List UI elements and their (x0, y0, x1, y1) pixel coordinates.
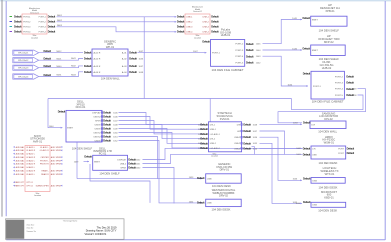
svg-text:ENET: ENET (67, 128, 73, 130)
HUB-02 right pin PORT-2 (335, 74, 354, 78)
svg-text:104 DEN SHELF: 104 DEN SHELF (319, 28, 340, 32)
svg-text:PORT-1: PORT-1 (39, 17, 47, 19)
svg-text:03 AUD R: 03 AUD R (26, 163, 35, 166)
svg-text:FRONT R: FRONT R (40, 164, 49, 166)
svg-text:104 DEN DESK: 104 DEN DESK (319, 161, 338, 165)
svg-text:WSM-01: WSM-01 (324, 140, 335, 144)
kvm KVM-01 box (209, 122, 242, 152)
svg-text:05 AUD L: 05 AUD L (26, 173, 35, 176)
wire HUB-01 PORT-3 to MFP-02 ENET (263, 47, 311, 51)
svg-text:04 AUD L: 04 AUD L (26, 166, 35, 169)
KVM-01 right pin USB-2 2 (234, 135, 258, 139)
HUB-01 right pin PORT-3 (235, 48, 261, 52)
AVR-01 right pin FRONT R (40, 163, 62, 166)
svg-text:Location: Location (31, 36, 38, 39)
svg-text:Default: Default (103, 131, 111, 135)
wire DOC-01 row1 to KVM-01 row1 (119, 113, 204, 125)
svg-text:KBD-01: KBD-01 (324, 196, 334, 200)
svg-text:Xxxx Xx:: Xxxx Xx: (27, 228, 34, 230)
AVR-01 left pin 04 AUD L (13, 166, 36, 169)
hub HUB-02 box (311, 71, 344, 99)
wire stub down left of DRV-02 run (90, 164, 150, 203)
printer MFP-02 box (311, 45, 346, 56)
svg-text:01 AUD R: 01 AUD R (40, 149, 49, 152)
hub HUB-01 box (211, 40, 245, 67)
svg-text:USB E: USB E (95, 128, 102, 130)
flag WP-01 input 2 (13, 57, 63, 63)
KVM-01 left pin USB-1 (198, 127, 217, 131)
svg-text:Default: Default (14, 30, 22, 34)
svg-text:PORT-2: PORT-2 (23, 22, 31, 24)
svg-text:AVR-01: AVR-01 (33, 139, 43, 143)
wire KVM-01 L/R drop (260, 131, 285, 154)
wire KVM-01 USB to KBD-01 (260, 143, 303, 204)
svg-text:USB: USB (312, 205, 317, 207)
svg-text:PORT-2: PORT-2 (39, 22, 47, 24)
svg-text:Default: Default (103, 139, 111, 143)
svg-text:AUD BAL: AUD BAL (16, 166, 25, 169)
receiver AVR-01 box (25, 146, 50, 192)
svg-text:USB-2: USB-2 (210, 143, 217, 145)
svg-text:N001: N001 (57, 15, 63, 17)
wire TEL-01 to TEL-02 row2 (57, 20, 177, 22)
svg-text:USB-2: USB-2 (234, 137, 241, 139)
WSM-01 left pin USB (296, 152, 317, 156)
svg-text:A-03 R: A-03 R (94, 65, 101, 68)
svg-text:Default: Default (103, 115, 111, 119)
svg-text:AUD SPKR: AUD SPKR (51, 159, 62, 162)
DOC-01 right pin USB S2 (93, 135, 118, 139)
svg-text:Default: Default (84, 51, 92, 55)
svg-text:Location: Location (194, 36, 201, 39)
svg-text:PORT: PORT (338, 148, 344, 150)
svg-text:104 DEN SHELF: 104 DEN SHELF (72, 147, 93, 151)
title block frame (6, 219, 125, 240)
svg-text:04 AUD R: 04 AUD R (26, 170, 35, 173)
svg-text:Default: Default (197, 200, 205, 204)
TEL-02 pin row 4 (177, 30, 219, 34)
AVR-01 left pin 05 AUD L (13, 173, 36, 176)
AVR-01 right pin SUBWOOFER (36, 184, 63, 187)
drive DRV-02 box (206, 199, 242, 206)
svg-text:USB S2: USB S2 (93, 136, 101, 138)
WP-01 pin row 4 (84, 70, 137, 74)
svg-text:Default: Default (177, 25, 185, 29)
svg-text:Default: Default (48, 30, 56, 34)
svg-text:The Design Name: The Design Name (63, 221, 77, 223)
svg-text:HUB-01: HUB-01 (221, 33, 231, 37)
svg-text:Default: Default (129, 51, 137, 55)
svg-text:DRV-02: DRV-02 (219, 194, 229, 198)
svg-text:Default: Default (243, 141, 251, 145)
svg-text:A-04 R: A-04 R (94, 71, 101, 74)
svg-text:Default: Default (14, 15, 22, 19)
PC-01 right pin SPKR (120, 166, 141, 170)
svg-text:WP-01 A-04: WP-01 A-04 (18, 75, 28, 78)
svg-text:DOC-01: DOC-01 (76, 105, 86, 109)
svg-text:ENET: ENET (312, 50, 318, 52)
svg-text:03 AUD L: 03 AUD L (26, 159, 35, 162)
svg-text:N003: N003 (57, 25, 63, 27)
svg-text:Default: Default (346, 81, 354, 85)
svg-text:Default: Default (303, 71, 311, 75)
svg-text:Default: Default (103, 135, 111, 139)
wire PC-01 USB to WSM-01 USB (143, 154, 303, 163)
svg-text:DRV-01: DRV-01 (220, 168, 230, 172)
svg-text:A-02: A-02 (122, 58, 127, 61)
AVR-01 right pin REAR R (41, 173, 62, 176)
svg-text:PORT-2: PORT-2 (235, 44, 244, 46)
svg-text:Default: Default (48, 25, 56, 29)
wire DRV-01 USB feed (77, 142, 202, 179)
speaker WSM-01 box (311, 146, 346, 159)
svg-text:USB: USB (312, 180, 317, 182)
svg-text:Default: Default (243, 135, 251, 139)
HUB-02 right pin PORT-4 (335, 87, 354, 91)
svg-text:104 DEN FILE CABINET: 104 DEN FILE CABINET (312, 100, 344, 104)
svg-text:USB-2: USB-2 (120, 163, 127, 165)
wire backbone DOC ENET run (48, 98, 292, 100)
wire flag 2 to WP-01 (39, 59, 83, 61)
wire backbone drop to DOC ENET (48, 99, 63, 129)
PC-01 right pin USB-2 (120, 162, 141, 166)
svg-text:Default: Default (211, 20, 219, 24)
svg-text:L/R: L/R (237, 131, 241, 133)
wire DOC-01 row6 to KVM-01 row6 (119, 133, 204, 149)
AVR-01 left pin 03 AUD R (13, 163, 36, 166)
flag WP-01 input 1 (13, 49, 63, 55)
svg-text:LINE-3: LINE-3 (186, 27, 193, 29)
svg-text:USB-2: USB-2 (234, 143, 241, 145)
svg-text:Default: Default (58, 110, 66, 114)
WP-01 pin row 3 (84, 64, 137, 68)
svg-text:Default: Default (303, 177, 311, 181)
TEL-02 pin row 3 (177, 25, 219, 29)
svg-text:USB-2: USB-2 (234, 148, 241, 150)
svg-text:LINE-3: LINE-3 (203, 27, 210, 29)
printer XPB-01 box (311, 16, 347, 26)
drive DRV-01 box (206, 174, 242, 183)
svg-text:Device-02: Device-02 (193, 11, 202, 13)
svg-text:Default: Default (303, 16, 311, 20)
wall plate WP-01 box (92, 49, 128, 76)
svg-text:LINE-1: LINE-1 (186, 17, 193, 19)
svg-text:SPKR: SPKR (120, 167, 126, 169)
AVR-01 left pin 01 AUD R (13, 149, 36, 152)
svg-text:L-R AUD-2: L-R AUD-2 (210, 147, 221, 150)
svg-text:Default: Default (211, 15, 219, 19)
svg-text:Default: Default (14, 25, 22, 29)
svg-text:L/R: L/R (312, 148, 316, 150)
svg-text:A-04: A-04 (122, 71, 127, 74)
svg-text:Default: Default (129, 64, 137, 68)
KVM-01 left pin USB-2 (198, 141, 217, 145)
TEL-01 pin row 2 (14, 20, 55, 24)
svg-text:PORT-4: PORT-4 (39, 32, 47, 34)
svg-text:104 DEN FILE CABINET: 104 DEN FILE CABINET (212, 68, 244, 72)
svg-text:PORT-5: PORT-5 (335, 95, 344, 97)
svg-text:Default: Default (246, 48, 254, 52)
AVR-01 right pin CENTER (40, 156, 62, 159)
TEL-02 pin row 2 (177, 20, 219, 24)
KVM-01 left pin L-R AUD-1 (198, 132, 221, 136)
WP-01 pin row 1 (84, 51, 137, 55)
WSM-01 right pin PORT a (338, 146, 354, 150)
svg-text:PORT-4: PORT-4 (23, 32, 31, 34)
svg-text:N002: N002 (57, 20, 63, 22)
svg-text:Default: Default (197, 176, 205, 180)
svg-text:XPB-01: XPB-01 (325, 9, 335, 13)
svg-text:Xxxx Xxx:: Xxxx Xxx: (27, 225, 35, 227)
svg-text:USB E: USB E (95, 124, 102, 126)
wire HUB-01 PORT-2 to XPB-01 ENET (263, 16, 311, 44)
wire DOC-01 USB to DRV-02 (119, 141, 203, 204)
svg-text:WTX-01: WTX-01 (325, 172, 335, 176)
svg-text:ENET: ENET (94, 161, 100, 163)
wire PC-01 DISPLAY to WSM-01 L/R (143, 148, 303, 159)
KVM-01 right pin L/R 1 (237, 129, 258, 133)
monitor DIS-02 box (310, 121, 346, 129)
svg-text:PORT-3: PORT-3 (39, 27, 47, 29)
svg-text:PORT-1: PORT-1 (313, 86, 322, 88)
svg-text:Default: Default (303, 200, 311, 204)
HUB-02 right pin PORT-5 (335, 93, 354, 97)
WSM-01 right pin PORT b (338, 151, 354, 155)
svg-text:AUD SPKR: AUD SPKR (51, 170, 62, 173)
svg-text:Location: Location (211, 155, 218, 158)
DOC-01 right pin DISPLAY (92, 111, 118, 115)
wire DOC-01 row4 to KVM-01 row4 (119, 125, 204, 139)
svg-text:PORT-4: PORT-4 (235, 56, 244, 58)
svg-text:VALLEY CONDOS: VALLEY CONDOS (85, 232, 107, 236)
WP-01 pin row 2 (84, 57, 137, 61)
wire flag 4 to WP-01 (39, 72, 83, 77)
DOC-01 right pin USB E (95, 127, 119, 131)
svg-text:Default: Default (84, 57, 92, 61)
svg-text:HUB-02: HUB-02 (322, 66, 332, 70)
svg-text:104 DEN WALL: 104 DEN WALL (318, 130, 337, 134)
svg-text:Default: Default (211, 30, 219, 34)
svg-text:DVI: DVI (237, 124, 241, 126)
svg-text:LINE-4: LINE-4 (203, 32, 210, 34)
wire HUB-01 PORT-4 to HUB-02 PORT-1 (263, 56, 309, 87)
svg-text:DVI-2: DVI-2 (210, 139, 216, 141)
svg-text:AUD BAL: AUD BAL (16, 173, 25, 176)
svg-text:AUD SPKR: AUD SPKR (51, 146, 62, 149)
wire drop to KVM DVI-1 (209, 99, 211, 122)
svg-text:AUD SPKR: AUD SPKR (51, 163, 62, 166)
svg-text:104 DEN DESK: 104 DEN DESK (212, 184, 231, 188)
svg-text:Default: Default (177, 15, 185, 19)
svg-text:AUD BAL: AUD BAL (16, 153, 25, 156)
svg-text:PORT-3: PORT-3 (235, 50, 244, 52)
wire KVM-01 USB to WTX-01 (260, 137, 303, 181)
svg-text:PORT-2: PORT-2 (335, 76, 344, 78)
sheet right border line (384, 1, 386, 240)
svg-text:DVI: DVI (311, 124, 315, 126)
svg-text:Default: Default (246, 42, 254, 46)
svg-text:Default: Default (243, 129, 251, 133)
svg-text:Default: Default (303, 121, 311, 125)
svg-text:LINE-2: LINE-2 (203, 22, 210, 24)
AVR-01 left pin OPT 01 (13, 181, 33, 184)
AVR-01 right pin 01 AUD R (40, 149, 63, 152)
svg-text:USB: USB (312, 154, 317, 156)
wire flag 3 to WP-01 (39, 66, 83, 68)
svg-text:104 DEN DESK: 104 DEN DESK (212, 207, 231, 211)
wire DOC-01 row3 to KVM-01 row3 (119, 121, 204, 134)
svg-text:Default: Default (84, 64, 92, 68)
svg-text:LINE-1: LINE-1 (203, 17, 210, 19)
dock DOC-01 box (66, 110, 102, 142)
AVR-01 left pin OPT 02 (13, 185, 33, 188)
KVM-01 right pin USB-2 4 (234, 146, 258, 150)
svg-text:SPKR: SPKR (95, 120, 101, 122)
wire DOC-01 USB to DRV-01 (77, 137, 158, 179)
wire PC-01 SPKR to KBD-01 run (143, 168, 175, 204)
svg-text:CENTER: CENTER (40, 157, 49, 159)
wire WP-01 A-01 to HUB-01 PORT-1 (138, 51, 207, 54)
AVR-01 left pin 02 AUD L (13, 153, 36, 156)
svg-text:REAR L: REAR L (41, 170, 49, 173)
wire HUB-02 PORT-4 to DIS-02 DVI (278, 89, 366, 123)
svg-text:A-02 R: A-02 R (94, 58, 101, 61)
svg-text:SUBWOOFER: SUBWOOFER (36, 185, 50, 187)
svg-text:REAR R: REAR R (41, 173, 49, 176)
AVR-01 left pin 01 AUD L (13, 146, 36, 149)
svg-text:AUD BAL: AUD BAL (16, 159, 25, 162)
wire TEL-01 row3 jog to TEL-02 row4 (57, 25, 177, 33)
AVR-01 right pin FRONT L (40, 159, 62, 162)
svg-text:AUD BAL: AUD BAL (16, 156, 25, 159)
svg-text:Default: Default (129, 57, 137, 61)
wire KVM-01 row5 to WSM (260, 147, 303, 149)
title block logo (6, 220, 24, 239)
svg-text:PORT: PORT (338, 153, 344, 155)
svg-text:DISPLAY: DISPLAY (117, 158, 126, 161)
svg-text:Default: Default (347, 151, 355, 155)
svg-text:AUD BAL: AUD BAL (16, 170, 25, 173)
KVM-01 left pin DVI-2 (198, 137, 216, 141)
svg-text:Default: Default (103, 123, 111, 127)
HUB-01 right pin PORT-5 (235, 61, 261, 65)
svg-text:Default: Default (48, 15, 56, 19)
svg-text:Default: Default (303, 152, 311, 156)
DOC-01 right pin USB E (95, 123, 119, 127)
sheet top edge band (0, 0, 391, 1)
svg-text:PORT-5: PORT-5 (235, 63, 244, 65)
svg-text:02 AUD L: 02 AUD L (26, 153, 35, 156)
wire DOC-01 row5 to KVM-01 row5 (119, 129, 204, 144)
wire HUB-02 PORT-5 to backbone (292, 95, 364, 110)
svg-text:Default: Default (202, 39, 210, 43)
svg-text:USB: USB (207, 178, 212, 180)
wire branch down from row1 junction (143, 17, 145, 99)
svg-text:FIBER OPT: FIBER OPT (14, 185, 25, 187)
svg-text:L-R AUD-1: L-R AUD-1 (210, 133, 221, 136)
TEL-02 pin row 1 (177, 15, 219, 19)
svg-text:Default: Default (346, 74, 354, 78)
svg-text:02 AUD R: 02 AUD R (26, 156, 35, 159)
KVM-01 right pin USB-2 3 (234, 141, 258, 145)
flag WP-01 input 4 (13, 73, 63, 79)
svg-text:A-01 R: A-01 R (94, 52, 101, 55)
svg-text:PORT-4: PORT-4 (335, 89, 344, 91)
svg-text:PORT-1: PORT-1 (212, 53, 221, 55)
AVR-01 right pin 01 AUD L (40, 146, 62, 149)
HUB-02 right pin PORT-3 (335, 81, 354, 85)
svg-text:Default: Default (103, 127, 111, 131)
sheet left inner border line (5, 1, 7, 216)
svg-text:PORT-1: PORT-1 (23, 17, 31, 19)
svg-text:MFP-02: MFP-02 (324, 40, 334, 44)
KVM-01 left pin L-R AUD-2 (198, 146, 221, 150)
wire KVM-01 DVI to DIS-02 DVI (260, 123, 303, 126)
svg-text:WP-01 A-02: WP-01 A-02 (18, 59, 28, 62)
AVR-01 left pin 03 AUD L (13, 159, 36, 162)
svg-text:Default: Default (48, 20, 56, 24)
svg-text:Location: Location (34, 194, 41, 197)
svg-text:AUD SPKR: AUD SPKR (51, 184, 62, 187)
svg-text:104 DEN DESK: 104 DEN DESK (319, 185, 338, 189)
sheet left outer gray border line (1, 0, 3, 217)
wire KVM-01 USB-2 short drop (252, 147, 255, 155)
svg-text:Default: Default (347, 146, 355, 150)
svg-text:USB S2: USB S2 (93, 116, 101, 118)
HUB-01 right pin PORT-2 (235, 42, 261, 46)
svg-text:FIBER OPT: FIBER OPT (14, 182, 25, 184)
svg-text:DIS-02: DIS-02 (324, 117, 333, 121)
svg-text:OPT 02: OPT 02 (26, 185, 32, 187)
svg-text:AUD BAL: AUD BAL (16, 146, 25, 149)
PC-01 right pin DISPLAY (117, 158, 141, 162)
svg-text:Default: Default (177, 30, 185, 34)
svg-text:Default: Default (84, 154, 92, 158)
svg-text:ENET: ENET (312, 19, 318, 21)
svg-text:KVM-01: KVM-01 (220, 117, 230, 121)
svg-text:AUD BAL: AUD BAL (16, 149, 25, 152)
DOC-01 right pin USB S2 (93, 115, 118, 119)
svg-text:WP-01: WP-01 (106, 45, 115, 49)
svg-text:01 AUD L: 01 AUD L (40, 146, 49, 149)
svg-text:Default: Default (303, 146, 311, 150)
svg-text:WP-01 A-01: WP-01 A-01 (18, 52, 28, 55)
svg-text:USB E: USB E (95, 140, 102, 142)
svg-text:Default: Default (303, 47, 311, 51)
TEL-01 left wire stubs (10, 16, 13, 18)
svg-text:Default: Default (129, 70, 137, 74)
svg-text:Default: Default (177, 20, 185, 24)
svg-text:Default: Default (103, 111, 111, 115)
device TEL-01 box (22, 14, 47, 34)
svg-text:PC-01: PC-01 (99, 151, 107, 155)
svg-text:Default: Default (243, 123, 251, 127)
svg-text:OPT 01: OPT 01 (26, 182, 32, 184)
svg-text:USB S2: USB S2 (93, 132, 101, 134)
AVR-01 left pin 04 AUD R (13, 170, 36, 173)
svg-text:104 DEN DESK: 104 DEN DESK (318, 209, 337, 213)
TEL-01 pin row 4 (14, 30, 55, 34)
svg-text:Default: Default (211, 25, 219, 29)
svg-text:AUD SPKR: AUD SPKR (51, 149, 62, 152)
wireless WTX-01 box (311, 178, 345, 184)
svg-text:DVI-1: DVI-1 (210, 124, 216, 126)
DOC-01 right pin SPKR (95, 119, 118, 123)
svg-text:Default: Default (246, 61, 254, 65)
svg-text:LINE-2: LINE-2 (186, 22, 193, 24)
keyboard KBD-01 box (311, 202, 346, 207)
svg-text:LINE-4: LINE-4 (186, 32, 193, 34)
